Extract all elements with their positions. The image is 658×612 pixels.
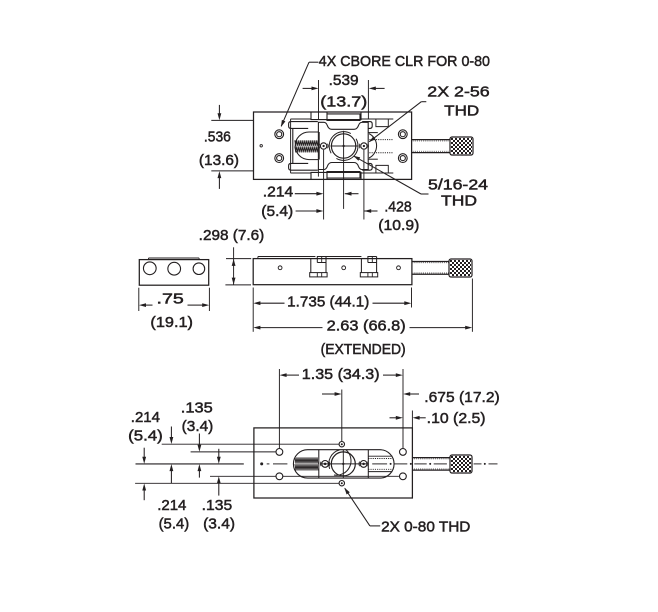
dim .536 extension top xyxy=(211,119,253,121)
bottom view knurled knob xyxy=(451,456,453,458)
dim .135 top arrows xyxy=(198,434,200,446)
top view alignment pin dot xyxy=(260,145,262,147)
svg-text:(13.7): (13.7) xyxy=(320,94,367,111)
end view hole circle left xyxy=(143,262,156,275)
dim .75 extension right xyxy=(208,288,210,311)
top view spring coil lower row xyxy=(295,146,319,152)
top view top clamp tab inner xyxy=(327,112,360,120)
dim 1.735 extension left xyxy=(252,288,254,332)
top view carriage wing bottom-left xyxy=(289,163,318,170)
end view body outline xyxy=(139,260,208,286)
leader 2X 2-56 THD xyxy=(421,101,426,103)
bottom view mounting hole 3 xyxy=(400,449,407,456)
dim .539 left arrow xyxy=(303,87,312,89)
top view pocket top edge right xyxy=(368,132,378,134)
bottom view mounting hole 4 xyxy=(400,473,407,480)
svg-text:(5.4): (5.4) xyxy=(261,203,293,220)
svg-text:(13.6): (13.6) xyxy=(199,152,239,169)
svg-text:.135: .135 xyxy=(202,497,233,514)
bottom view screw outline upper xyxy=(368,455,392,457)
svg-text:(3.4): (3.4) xyxy=(182,418,214,435)
top view carriage wing top-right xyxy=(362,122,372,129)
svg-text:.75: .75 xyxy=(157,291,184,308)
side view knurled knob xyxy=(450,260,452,262)
top view left block right edge xyxy=(290,119,292,173)
bottom view ext line through 0-80 bottom xyxy=(135,482,339,484)
dim .298 extension bottom xyxy=(225,284,251,286)
top view counterbore hole 4 xyxy=(398,154,407,163)
dim .536 extension bottom xyxy=(211,170,253,172)
top view rail jog bottom-right xyxy=(376,165,388,173)
dim 2.63 line left segment xyxy=(260,327,323,329)
bottom view screw outline lower xyxy=(368,471,392,473)
top view central circle horizontal crosshair xyxy=(331,145,358,147)
dim .539 right extension line xyxy=(367,80,369,119)
dim .539 left extension line xyxy=(318,80,320,119)
top view rail jog top-right xyxy=(376,119,388,127)
bottom view 0-80 hole bottom xyxy=(339,481,344,486)
top view 2-56 screw right xyxy=(361,143,367,149)
svg-text:.10 (2.5): .10 (2.5) xyxy=(427,410,486,427)
dim .298 extension top xyxy=(226,258,251,260)
side view hole circle middle xyxy=(342,266,346,270)
dim .10 extension body edge xyxy=(411,411,413,428)
svg-text:.536: .536 xyxy=(204,129,231,146)
dim 2.63 extension right xyxy=(471,279,473,332)
svg-text:THD: THD xyxy=(444,103,479,120)
bottom view ext line through 0-80 top xyxy=(162,443,339,445)
svg-text:THD: THD xyxy=(441,193,477,210)
dim .298 down arrow xyxy=(232,278,236,285)
dim .536 top arrow xyxy=(218,105,220,114)
top view bottom clamp tab outer xyxy=(311,172,361,179)
bottom view 2-56 screw left thread arcs xyxy=(320,462,323,467)
bottom view screw thread lower xyxy=(368,468,393,470)
top view bottom clamp tab inner xyxy=(327,172,360,180)
top view 5/16-24 thread arc xyxy=(336,139,358,161)
bottom view 2-56 screw right xyxy=(360,461,367,468)
end view hole circle right xyxy=(193,263,205,275)
bottom view shaft upper line xyxy=(412,457,449,459)
dim .428 right extension xyxy=(363,150,365,220)
top view pocket right arc xyxy=(369,134,377,158)
bottom view 0-80 hole top xyxy=(339,442,344,447)
top view rail inner edge upper-right xyxy=(361,118,393,120)
svg-text:2.63 (66.8): 2.63 (66.8) xyxy=(327,318,406,335)
svg-text:(5.4): (5.4) xyxy=(128,428,163,445)
top view pocket bottom edge left xyxy=(309,159,318,161)
side view body outline xyxy=(253,259,412,285)
top view body outline xyxy=(254,112,412,179)
bottom view screw thread upper xyxy=(368,458,393,460)
top view carriage left edge xyxy=(292,128,294,163)
leader 4X CBORE xyxy=(309,61,318,63)
dim .214 arrow pair xyxy=(295,193,317,195)
top view clamp plate outline xyxy=(318,122,368,169)
dim .135 bottom arrows xyxy=(218,449,220,458)
svg-text:.214: .214 xyxy=(157,497,186,514)
dim .536 bottom arrow xyxy=(218,177,220,189)
side view clamp screw 2 xyxy=(360,258,362,273)
bottom view ext line top holes xyxy=(191,451,276,453)
dim .539 right arrow xyxy=(375,87,384,89)
side view platform lid middle segment xyxy=(326,256,361,258)
top view rail inner edge lower-left xyxy=(291,172,312,174)
svg-text:.539: .539 xyxy=(329,72,359,89)
side view shaft upper line xyxy=(412,261,449,263)
top view adjuster shaft upper line xyxy=(412,139,450,141)
bottom view slot stadium xyxy=(293,450,394,478)
side view platform lid left segment xyxy=(258,256,316,258)
top view 2-56 screw left xyxy=(320,143,326,149)
top view spring coil upper row xyxy=(295,140,319,146)
side view shaft lower line xyxy=(412,273,449,275)
top view counterbore hole 2 xyxy=(275,154,284,163)
dim 1.35 extension left xyxy=(278,369,280,448)
dim 1.35/.675 extension right xyxy=(402,369,404,448)
top view counterbore hole 3 xyxy=(398,130,407,139)
svg-text:(5.4): (5.4) xyxy=(159,516,190,533)
svg-text:.428: .428 xyxy=(384,199,411,216)
bottom view horizontal centerline xyxy=(267,463,270,465)
dim .75 line with arrows xyxy=(145,304,152,306)
top view spring seat line xyxy=(318,132,320,160)
bottom view mounting hole 2 xyxy=(276,473,283,480)
top view knurled knob xyxy=(451,138,453,140)
top view top clamp tab outer xyxy=(311,112,361,119)
dim .428 arrow pair xyxy=(296,210,317,212)
dim .75 extension left xyxy=(138,288,140,311)
dim .298 leader line xyxy=(233,247,235,285)
dim .675 extension 0-80 xyxy=(341,390,343,442)
bottom view body outline xyxy=(254,428,413,498)
dim .298 up arrow xyxy=(232,259,236,266)
side view hole circle right xyxy=(397,266,401,270)
svg-text:4X CBORE CLR FOR 0-80: 4X CBORE CLR FOR 0-80 xyxy=(319,53,490,70)
top view counterbore hole 1 xyxy=(275,130,284,139)
dim .214 left extension xyxy=(323,150,325,220)
svg-text:.298 (7.6): .298 (7.6) xyxy=(199,227,265,244)
svg-text:(19.1): (19.1) xyxy=(150,314,193,331)
top view rail inner edge upper-left xyxy=(291,118,312,120)
dim 1.35 line right segment xyxy=(383,374,397,376)
svg-text:(10.9): (10.9) xyxy=(378,217,419,234)
side view clamp screw 1 xyxy=(310,258,312,273)
svg-text:.214: .214 xyxy=(131,409,160,426)
top view central circle vertical crosshair xyxy=(343,131,345,209)
top view rail inner edge lower-right xyxy=(361,172,393,174)
dim 1.735 extension right xyxy=(411,288,413,308)
dim .214 top arrows xyxy=(170,427,172,438)
svg-text:.675 (17.2): .675 (17.2) xyxy=(424,389,499,406)
bottom view 2-56 screw left xyxy=(322,461,329,468)
svg-text:1.35 (34.3): 1.35 (34.3) xyxy=(302,366,380,383)
top view lead screw thread line upper xyxy=(369,139,393,141)
svg-text:.135: .135 xyxy=(181,400,213,417)
leader 2X 0-80 THD xyxy=(370,525,380,527)
top view pocket bottom edge right xyxy=(368,158,378,160)
dim 1.35 line left segment xyxy=(286,374,299,376)
bottom view mounting hole 1 xyxy=(276,449,283,456)
top view carriage wing top-left xyxy=(289,122,318,129)
top view pocket top edge left xyxy=(309,131,318,133)
dim .214 bottom arrows xyxy=(143,448,145,458)
end view platform lid xyxy=(149,257,200,259)
bottom view central vertical crosshair xyxy=(342,450,344,478)
bottom view central thread arc xyxy=(334,450,351,476)
bottom view plate right edge xyxy=(367,450,369,478)
end view hole circle middle xyxy=(168,262,181,275)
bottom view shaft lower line xyxy=(412,469,449,471)
top view plate left edge lower extension xyxy=(317,170,319,177)
bottom view centerline solid left extension xyxy=(136,463,244,465)
bottom view spring coil upper row xyxy=(295,457,318,463)
svg-text:2X 0-80 THD: 2X 0-80 THD xyxy=(381,519,470,536)
svg-text:5/16-24: 5/16-24 xyxy=(428,177,488,194)
dim .10 arrows xyxy=(390,417,397,419)
dim 2.63 line right segment xyxy=(410,327,466,329)
dim .675 arrows xyxy=(322,393,336,395)
svg-text:.214: .214 xyxy=(263,184,293,201)
leader 5/16-24 THD xyxy=(421,193,429,195)
top view lead screw thread line lower xyxy=(369,152,393,154)
svg-text:(3.4): (3.4) xyxy=(203,516,235,533)
side view hole circle left xyxy=(278,266,282,270)
dim 1.735 line left segment xyxy=(260,302,285,304)
svg-text:(EXTENDED): (EXTENDED) xyxy=(321,341,406,358)
svg-text:1.735 (44.1): 1.735 (44.1) xyxy=(287,293,369,310)
svg-text:2X 2-56: 2X 2-56 xyxy=(427,84,489,101)
bottom view ext line bottom holes xyxy=(210,475,276,477)
bottom view spring coil lower row xyxy=(295,464,318,470)
bottom view central circle xyxy=(331,452,355,476)
top view adjuster shaft lower line xyxy=(412,152,450,154)
bottom view spring seat line xyxy=(318,450,320,478)
top view carriage wing bottom-right xyxy=(362,163,372,170)
dim 1.735 line right segment xyxy=(373,302,406,304)
top view 5/16-24 central circle xyxy=(331,134,355,158)
top view spring pocket left arc xyxy=(295,132,309,160)
